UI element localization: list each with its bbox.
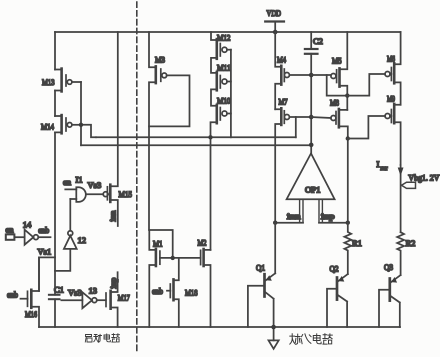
svg-text:M13: M13 xyxy=(42,77,55,87)
svg-text:M2: M2 xyxy=(198,238,207,248)
terminal en input pad xyxy=(6,234,25,239)
svg-text:14: 14 xyxy=(23,220,32,230)
gate I2 inverter (pointing up) xyxy=(55,199,77,271)
wire line A right end up to M7/M8 gate lead xyxy=(295,117,297,137)
terminal Vbg output tag xyxy=(402,182,416,188)
arrow Iref down xyxy=(398,168,404,177)
transistor M11 xyxy=(211,72,231,106)
svg-text:enb: enb xyxy=(152,286,163,296)
svg-text:13: 13 xyxy=(89,286,98,296)
node line B end xyxy=(309,143,314,148)
svg-text:Q1: Q1 xyxy=(256,263,265,273)
gate I4 inverter xyxy=(25,230,51,245)
transistor Q1 xyxy=(248,223,275,327)
node gate junction dot xyxy=(79,123,83,127)
transistor M12 xyxy=(211,32,231,73)
svg-text:inn: inn xyxy=(287,211,301,221)
node M7-M8 gate xyxy=(309,115,314,120)
svg-text:I1: I1 xyxy=(76,175,83,185)
gate I3 inverter xyxy=(61,292,105,308)
transistor M14 xyxy=(55,115,81,133)
node ground rail junction xyxy=(271,325,276,330)
svg-text:12: 12 xyxy=(78,235,87,245)
svg-text:M9: M9 xyxy=(387,94,395,104)
svg-text:M11: M11 xyxy=(217,63,231,73)
capacitor C2 xyxy=(305,32,318,75)
svg-text:OP1: OP1 xyxy=(305,185,321,195)
svg-text:Q2: Q2 xyxy=(330,264,339,274)
wire M9 gate route xyxy=(348,116,385,139)
node inn junction xyxy=(273,221,277,225)
svg-text:M10: M10 xyxy=(217,96,231,106)
svg-text:inp: inp xyxy=(321,211,335,221)
dashed separator line xyxy=(136,2,138,354)
transistor M8 xyxy=(311,109,348,223)
transistor M3 xyxy=(149,32,190,230)
transistor M7 xyxy=(275,108,311,222)
node C2 / M4-M5 gate xyxy=(309,73,314,78)
svg-text:M8: M8 xyxy=(330,98,339,108)
transistor M2 xyxy=(201,249,211,327)
node M8 drain / bias xyxy=(346,136,350,140)
svg-text:Vbg1. 2V: Vbg1. 2V xyxy=(408,173,440,183)
resistor R1 xyxy=(344,223,351,274)
svg-text:R2: R2 xyxy=(406,238,416,248)
svg-text:en: en xyxy=(6,225,15,235)
svg-text:M6: M6 xyxy=(387,54,395,64)
transistor M9 xyxy=(385,104,401,165)
transistor M6 xyxy=(385,32,401,105)
svg-text:VDD: VDD xyxy=(267,8,282,18)
svg-text:M18: M18 xyxy=(185,288,198,298)
wire bottom ground rail xyxy=(39,326,400,328)
transistor M4 xyxy=(275,32,311,109)
ground symbol xyxy=(269,327,279,349)
VDD symbol xyxy=(265,22,284,33)
wire M13/M14 gate junction to bias lines xyxy=(81,82,96,145)
svg-text:M1: M1 xyxy=(153,239,163,249)
svg-text:M7: M7 xyxy=(279,97,288,107)
wire inp xyxy=(319,222,348,224)
gate I1 AND xyxy=(65,187,103,202)
node M5 drain junction xyxy=(345,93,349,97)
wire left rail / Vs1 net vertical x=55 xyxy=(54,32,56,327)
svg-text:M12: M12 xyxy=(217,33,231,43)
svg-text:M5: M5 xyxy=(332,56,342,66)
svg-text:Vs1: Vs1 xyxy=(38,247,52,257)
node VDD rail junction xyxy=(273,30,278,35)
svg-text:M14: M14 xyxy=(41,122,55,132)
opamp OP1 xyxy=(287,153,335,222)
wire bias line B y=144.8 xyxy=(81,144,311,146)
svg-text:M4: M4 xyxy=(277,55,287,65)
wire OP1 output vertical / gate bias column xyxy=(310,75,312,153)
resistor R2 xyxy=(397,232,404,275)
svg-text:Q3: Q3 xyxy=(384,262,393,272)
svg-text:C1: C1 xyxy=(54,285,64,295)
svg-text:R1: R1 xyxy=(352,238,362,248)
svg-text:inn: inn xyxy=(108,210,118,222)
svg-text:Vs3: Vs3 xyxy=(68,288,82,298)
wire Iref output branch xyxy=(400,165,402,232)
svg-text:M3: M3 xyxy=(155,55,165,65)
transistor M18 xyxy=(167,258,179,327)
label startup circuit xyxy=(85,334,119,343)
wire M6 gate route xyxy=(347,74,385,96)
svg-text:Vs3: Vs3 xyxy=(88,180,102,190)
transistor M10 xyxy=(211,105,231,250)
wire bias line A y=137.3 xyxy=(96,136,296,138)
transistor M17 xyxy=(106,272,118,327)
node M1 gate line junction xyxy=(171,256,175,260)
svg-text:M17: M17 xyxy=(118,293,130,303)
svg-text:en: en xyxy=(63,177,72,187)
svg-text:C2: C2 xyxy=(313,36,323,46)
svg-text:rur: rur xyxy=(381,166,388,172)
svg-text:enb: enb xyxy=(7,290,18,300)
transistor M16 xyxy=(21,257,40,327)
transistor Q2 xyxy=(327,274,348,327)
capacitor C1 xyxy=(49,295,60,299)
label core circuit xyxy=(290,334,333,345)
svg-text:enb: enb xyxy=(38,225,49,235)
wire Vs1 node xyxy=(39,257,55,291)
node M10 drain on line A xyxy=(208,135,212,139)
transistor M15 xyxy=(103,32,118,226)
node inp junction xyxy=(346,221,350,225)
transistor M5 xyxy=(311,32,347,110)
transistor Q3 xyxy=(379,275,401,327)
svg-text:inp: inp xyxy=(108,278,118,289)
transistor M13 xyxy=(55,69,81,92)
wire M12/M11/M10 gate chain xyxy=(230,50,232,138)
wire top VDD rail xyxy=(55,31,401,33)
wire inn xyxy=(275,222,303,224)
svg-text:M16: M16 xyxy=(25,309,37,319)
transistor M1 xyxy=(149,230,200,327)
svg-text:I: I xyxy=(377,159,380,169)
svg-text:M15: M15 xyxy=(119,189,133,199)
